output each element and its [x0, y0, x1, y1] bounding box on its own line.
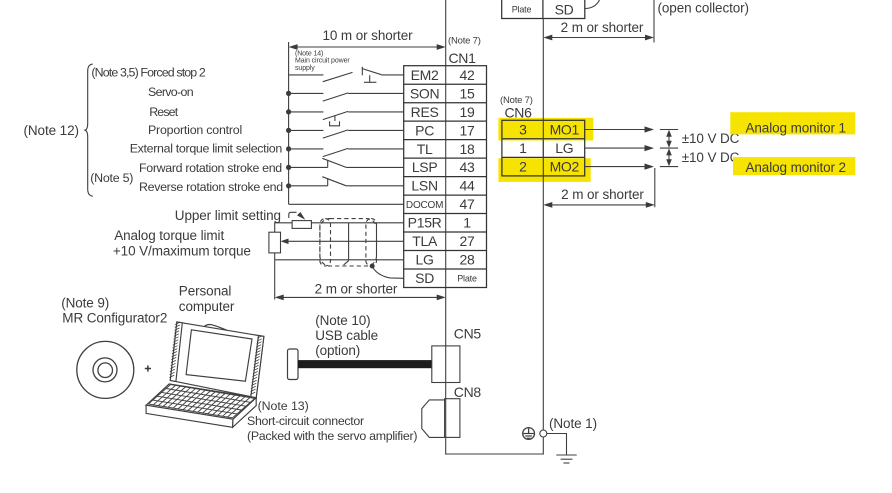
svg-text:CN1: CN1	[449, 50, 477, 66]
svg-text:P15R: P15R	[408, 215, 442, 231]
label: (Note 3,5) Forced stop 2	[91, 66, 206, 80]
node: bus junction dots	[286, 91, 291, 189]
svg-text:28: 28	[460, 252, 475, 268]
servo amplifier boundary line (left, through CN1)	[445, 0, 447, 455]
svg-text:USB cable: USB cable	[315, 328, 378, 343]
svg-text:2 m or shorter: 2 m or shorter	[561, 187, 644, 202]
svg-text:(Note 7): (Note 7)	[448, 35, 481, 46]
brace for Note 12 group	[84, 64, 93, 196]
wire LG	[275, 259, 404, 261]
label: (Note 9) MR Configurator2	[61, 296, 167, 326]
label: (Note 5)	[90, 171, 133, 185]
dimension: 2 m or shorter (CN6 cable)	[543, 168, 655, 208]
USB cable (thick cord)	[298, 360, 432, 368]
ground symbol	[547, 434, 577, 464]
svg-text:(Note 5): (Note 5)	[90, 171, 133, 185]
wire TLA	[287, 240, 404, 242]
svg-text:External torque limit selectio: External torque limit selection	[130, 141, 283, 155]
wire: vertical stub top right	[653, 0, 655, 43]
svg-text:2: 2	[519, 159, 527, 175]
label: Analog torque limit	[114, 228, 224, 243]
label: Analog monitor 1 (highlighted)	[730, 112, 855, 135]
svg-text:Forward rotation stroke end: Forward rotation stroke end	[139, 161, 282, 175]
label: plus sign	[145, 365, 151, 371]
connector CN5	[432, 326, 482, 383]
svg-text:Plate: Plate	[457, 274, 477, 284]
svg-text:CN8: CN8	[454, 384, 482, 400]
svg-text:Personal: Personal	[179, 284, 232, 299]
label: (Note 13) Short-circuit connector	[247, 399, 417, 443]
wire DOCOM	[289, 203, 404, 205]
svg-text:Reverse rotation stroke end: Reverse rotation stroke end	[139, 180, 283, 194]
svg-text:Upper limit setting: Upper limit setting	[175, 208, 281, 223]
label: +10 V/maximum torque	[113, 244, 251, 259]
svg-text:15: 15	[460, 85, 475, 101]
svg-text:(Packed with the servo amplifi: (Packed with the servo amplifier)	[247, 429, 417, 443]
protective earth terminal symbol	[523, 428, 535, 440]
dimension: 10 m or shorter	[289, 28, 446, 50]
USB cable plug	[288, 349, 299, 380]
svg-text:2 m or shorter: 2 m or shorter	[561, 20, 644, 35]
svg-text:RES: RES	[411, 104, 439, 120]
svg-text:Analog torque limit: Analog torque limit	[114, 228, 224, 243]
switch LSP (b-contact limit switch)	[289, 158, 404, 167]
switch PC (a-contact)	[289, 130, 404, 138]
svg-text:(open collector): (open collector)	[658, 0, 749, 15]
label: (open collector)	[658, 0, 749, 15]
svg-text:LG: LG	[555, 140, 573, 156]
svg-text:(Note 10): (Note 10)	[315, 313, 370, 328]
svg-text:TLA: TLA	[412, 233, 438, 249]
label: Analog monitor 2 (highlighted)	[733, 157, 855, 175]
label: Proportion control	[148, 123, 242, 137]
connector CN8	[422, 384, 482, 437]
svg-text:Proportion control: Proportion control	[148, 123, 242, 137]
bottom enclosure wire	[446, 453, 544, 455]
svg-text:LSN: LSN	[411, 178, 437, 194]
label: (Note 1)	[549, 416, 597, 431]
node: earth connection circle	[540, 430, 547, 437]
label: (Note 7) CN1	[448, 35, 481, 66]
svg-text:43: 43	[460, 159, 475, 175]
label: Reset	[149, 105, 179, 119]
label: (Note 7) CN6	[500, 95, 533, 121]
svg-text:SD: SD	[555, 1, 574, 17]
svg-text:±10 V DC: ±10 V DC	[682, 150, 740, 165]
wire LG (CN6 common)	[585, 145, 654, 151]
svg-text:10 m or shorter: 10 m or shorter	[322, 28, 413, 43]
svg-text:Servo-on: Servo-on	[148, 85, 194, 99]
wire P15R	[311, 222, 403, 224]
highlight: CN6 row 2 MO2	[498, 158, 590, 182]
label: External torque limit selection	[130, 141, 283, 155]
svg-text:1: 1	[463, 215, 471, 231]
potentiometer RP2 (analog torque limit)	[269, 232, 289, 260]
highlight: CN6 row 3 MO1	[498, 118, 593, 141]
svg-text:Short-circuit connector: Short-circuit connector	[247, 414, 364, 428]
svg-text:LG: LG	[416, 252, 434, 268]
wire: shield pigtail from SD cell	[585, 0, 600, 9]
svg-text:(Note 1): (Note 1)	[549, 416, 597, 431]
svg-text:computer: computer	[179, 299, 235, 314]
shielded twisted pair cable	[320, 219, 377, 266]
svg-text:MR Configurator2: MR Configurator2	[62, 311, 167, 326]
svg-text:supply: supply	[295, 65, 315, 72]
svg-text:SON: SON	[410, 85, 439, 101]
connector CN1 table	[404, 66, 487, 288]
connector CN6 table	[502, 118, 585, 182]
svg-text:Analog monitor 2: Analog monitor 2	[746, 160, 846, 175]
svg-text:Reset: Reset	[149, 105, 179, 119]
node: shield to SD junction	[370, 264, 404, 279]
switch SON (a-contact)	[289, 93, 404, 101]
svg-text:27: 27	[460, 233, 475, 249]
dimension: 2 m or shorter (analog input cable)	[275, 260, 446, 301]
label: Servo-on	[148, 85, 194, 99]
label: (Note 10) USB cable (option)	[315, 313, 378, 358]
connector CN3 remnant table (Plate | SD)	[502, 0, 585, 19]
dimension: 2 m or shorter (top)	[543, 20, 654, 41]
switch RES (a-contact)	[289, 111, 404, 125]
svg-text:Analog monitor 1: Analog monitor 1	[746, 121, 846, 136]
svg-text:MO2: MO2	[550, 159, 580, 175]
svg-text:(Note 9): (Note 9)	[61, 296, 109, 311]
svg-text:(Note 12): (Note 12)	[24, 123, 79, 138]
label: (Note 12)	[24, 123, 79, 138]
label: (Note 14) Main circuit power supply	[295, 50, 350, 71]
potentiometer RP1 (upper limit setting)	[275, 212, 312, 232]
switch LSN (b-contact limit switch)	[289, 177, 404, 186]
svg-text:LSP: LSP	[412, 159, 438, 175]
svg-text:EM2: EM2	[411, 67, 439, 83]
svg-text:1: 1	[519, 140, 527, 156]
svg-text:+10 V/maximum torque: +10 V/maximum torque	[113, 244, 251, 259]
svg-text:SD: SD	[415, 270, 434, 286]
svg-text:(Note 3,5) Forced stop 2: (Note 3,5) Forced stop 2	[91, 66, 206, 80]
svg-text:(Note 13): (Note 13)	[258, 399, 309, 413]
dimension: plus/minus 10 V DC (LG-MO2)	[660, 148, 740, 166]
CD-ROM disc (MR Configurator2 media)	[77, 341, 134, 398]
switch TL (a-contact)	[289, 148, 404, 156]
svg-text:(Note 14): (Note 14)	[295, 50, 323, 57]
wire MO1 (analog monitor 1 output)	[585, 126, 654, 132]
svg-text:47: 47	[460, 196, 475, 212]
label: Upper limit setting	[175, 208, 281, 223]
svg-text:PC: PC	[415, 122, 434, 138]
wire MO2 (analog monitor 2 output)	[585, 164, 654, 170]
main circuit power supply bus	[288, 42, 290, 204]
svg-text:(option): (option)	[315, 343, 360, 358]
dimension: plus/minus 10 V DC (MO1-LG)	[660, 130, 740, 149]
svg-text:17: 17	[460, 122, 475, 138]
personal computer (laptop drawing)	[146, 322, 264, 427]
label: Forward rotation stroke end	[139, 161, 282, 175]
label: Reverse rotation stroke end	[139, 180, 283, 194]
svg-text:2 m or shorter: 2 m or shorter	[315, 281, 398, 296]
svg-text:44: 44	[460, 178, 475, 194]
svg-text:18: 18	[460, 141, 475, 157]
svg-text:TL: TL	[417, 141, 433, 157]
servo amplifier boundary line (right, through CN6)	[542, 19, 544, 455]
svg-text:19: 19	[460, 104, 475, 120]
switch EM2 (forced stop 2, b-contact with manual operation symbol)	[289, 67, 404, 83]
svg-text:Plate: Plate	[512, 4, 532, 14]
svg-text:42: 42	[460, 67, 475, 83]
svg-text:MO1: MO1	[550, 122, 580, 138]
svg-text:CN5: CN5	[454, 326, 482, 342]
svg-text:Main circuit power: Main circuit power	[295, 58, 350, 65]
svg-text:DOCOM: DOCOM	[406, 200, 443, 211]
label: Personal computer	[179, 284, 235, 315]
svg-text:3: 3	[519, 122, 527, 138]
